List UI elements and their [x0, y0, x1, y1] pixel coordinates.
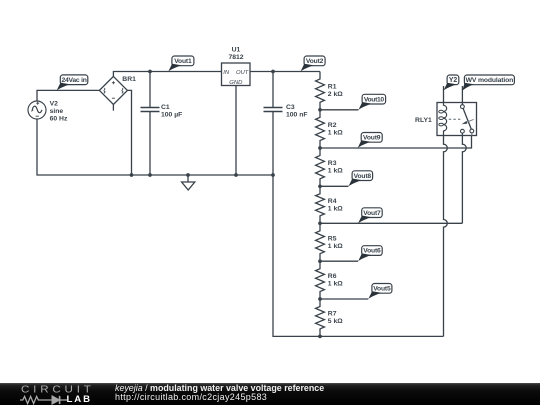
- svg-text:1 kΩ: 1 kΩ: [328, 168, 343, 175]
- svg-text:Vout8: Vout8: [354, 173, 372, 180]
- svg-text:24Vac in: 24Vac in: [61, 77, 86, 84]
- svg-text:R2: R2: [328, 122, 337, 129]
- svg-text:R7: R7: [328, 311, 337, 318]
- svg-text:R4: R4: [328, 198, 337, 205]
- svg-text:1 kΩ: 1 kΩ: [328, 129, 343, 136]
- svg-text:IN: IN: [223, 70, 230, 76]
- svg-text:Vout2: Vout2: [306, 58, 324, 65]
- svg-text:WV modulation: WV modulation: [466, 77, 514, 84]
- svg-text:2 kΩ: 2 kΩ: [328, 91, 343, 98]
- svg-text:Vout1: Vout1: [174, 58, 192, 65]
- svg-text:R5: R5: [328, 235, 337, 242]
- svg-text:GND: GND: [229, 80, 243, 86]
- svg-text:RLY1: RLY1: [415, 117, 432, 124]
- svg-text:1 kΩ: 1 kΩ: [328, 281, 343, 288]
- svg-text:Vout7: Vout7: [363, 210, 381, 217]
- svg-text:Vout10: Vout10: [364, 96, 385, 103]
- svg-text:C1: C1: [161, 104, 170, 111]
- svg-text:BR1: BR1: [122, 76, 136, 83]
- svg-text:Vout5: Vout5: [373, 286, 391, 293]
- svg-text:7812: 7812: [228, 54, 243, 61]
- svg-text:U1: U1: [232, 47, 241, 54]
- svg-text:100 µF: 100 µF: [161, 112, 182, 119]
- svg-text:Vout9: Vout9: [363, 135, 381, 142]
- svg-text:R1: R1: [328, 84, 337, 91]
- svg-text:C3: C3: [286, 104, 295, 111]
- svg-text:sine: sine: [50, 108, 64, 115]
- svg-text:V2: V2: [50, 100, 59, 107]
- svg-text:5 kΩ: 5 kΩ: [328, 318, 343, 325]
- svg-text:1 kΩ: 1 kΩ: [328, 243, 343, 250]
- svg-text:OUT: OUT: [236, 70, 249, 76]
- svg-text:60 Hz: 60 Hz: [50, 115, 68, 122]
- svg-text:100 nF: 100 nF: [286, 112, 308, 119]
- svg-text:R3: R3: [328, 160, 337, 167]
- svg-text:1 kΩ: 1 kΩ: [328, 205, 343, 212]
- svg-text:Y2: Y2: [449, 77, 457, 84]
- svg-text:R6: R6: [328, 273, 337, 280]
- svg-text:Vout6: Vout6: [363, 248, 381, 255]
